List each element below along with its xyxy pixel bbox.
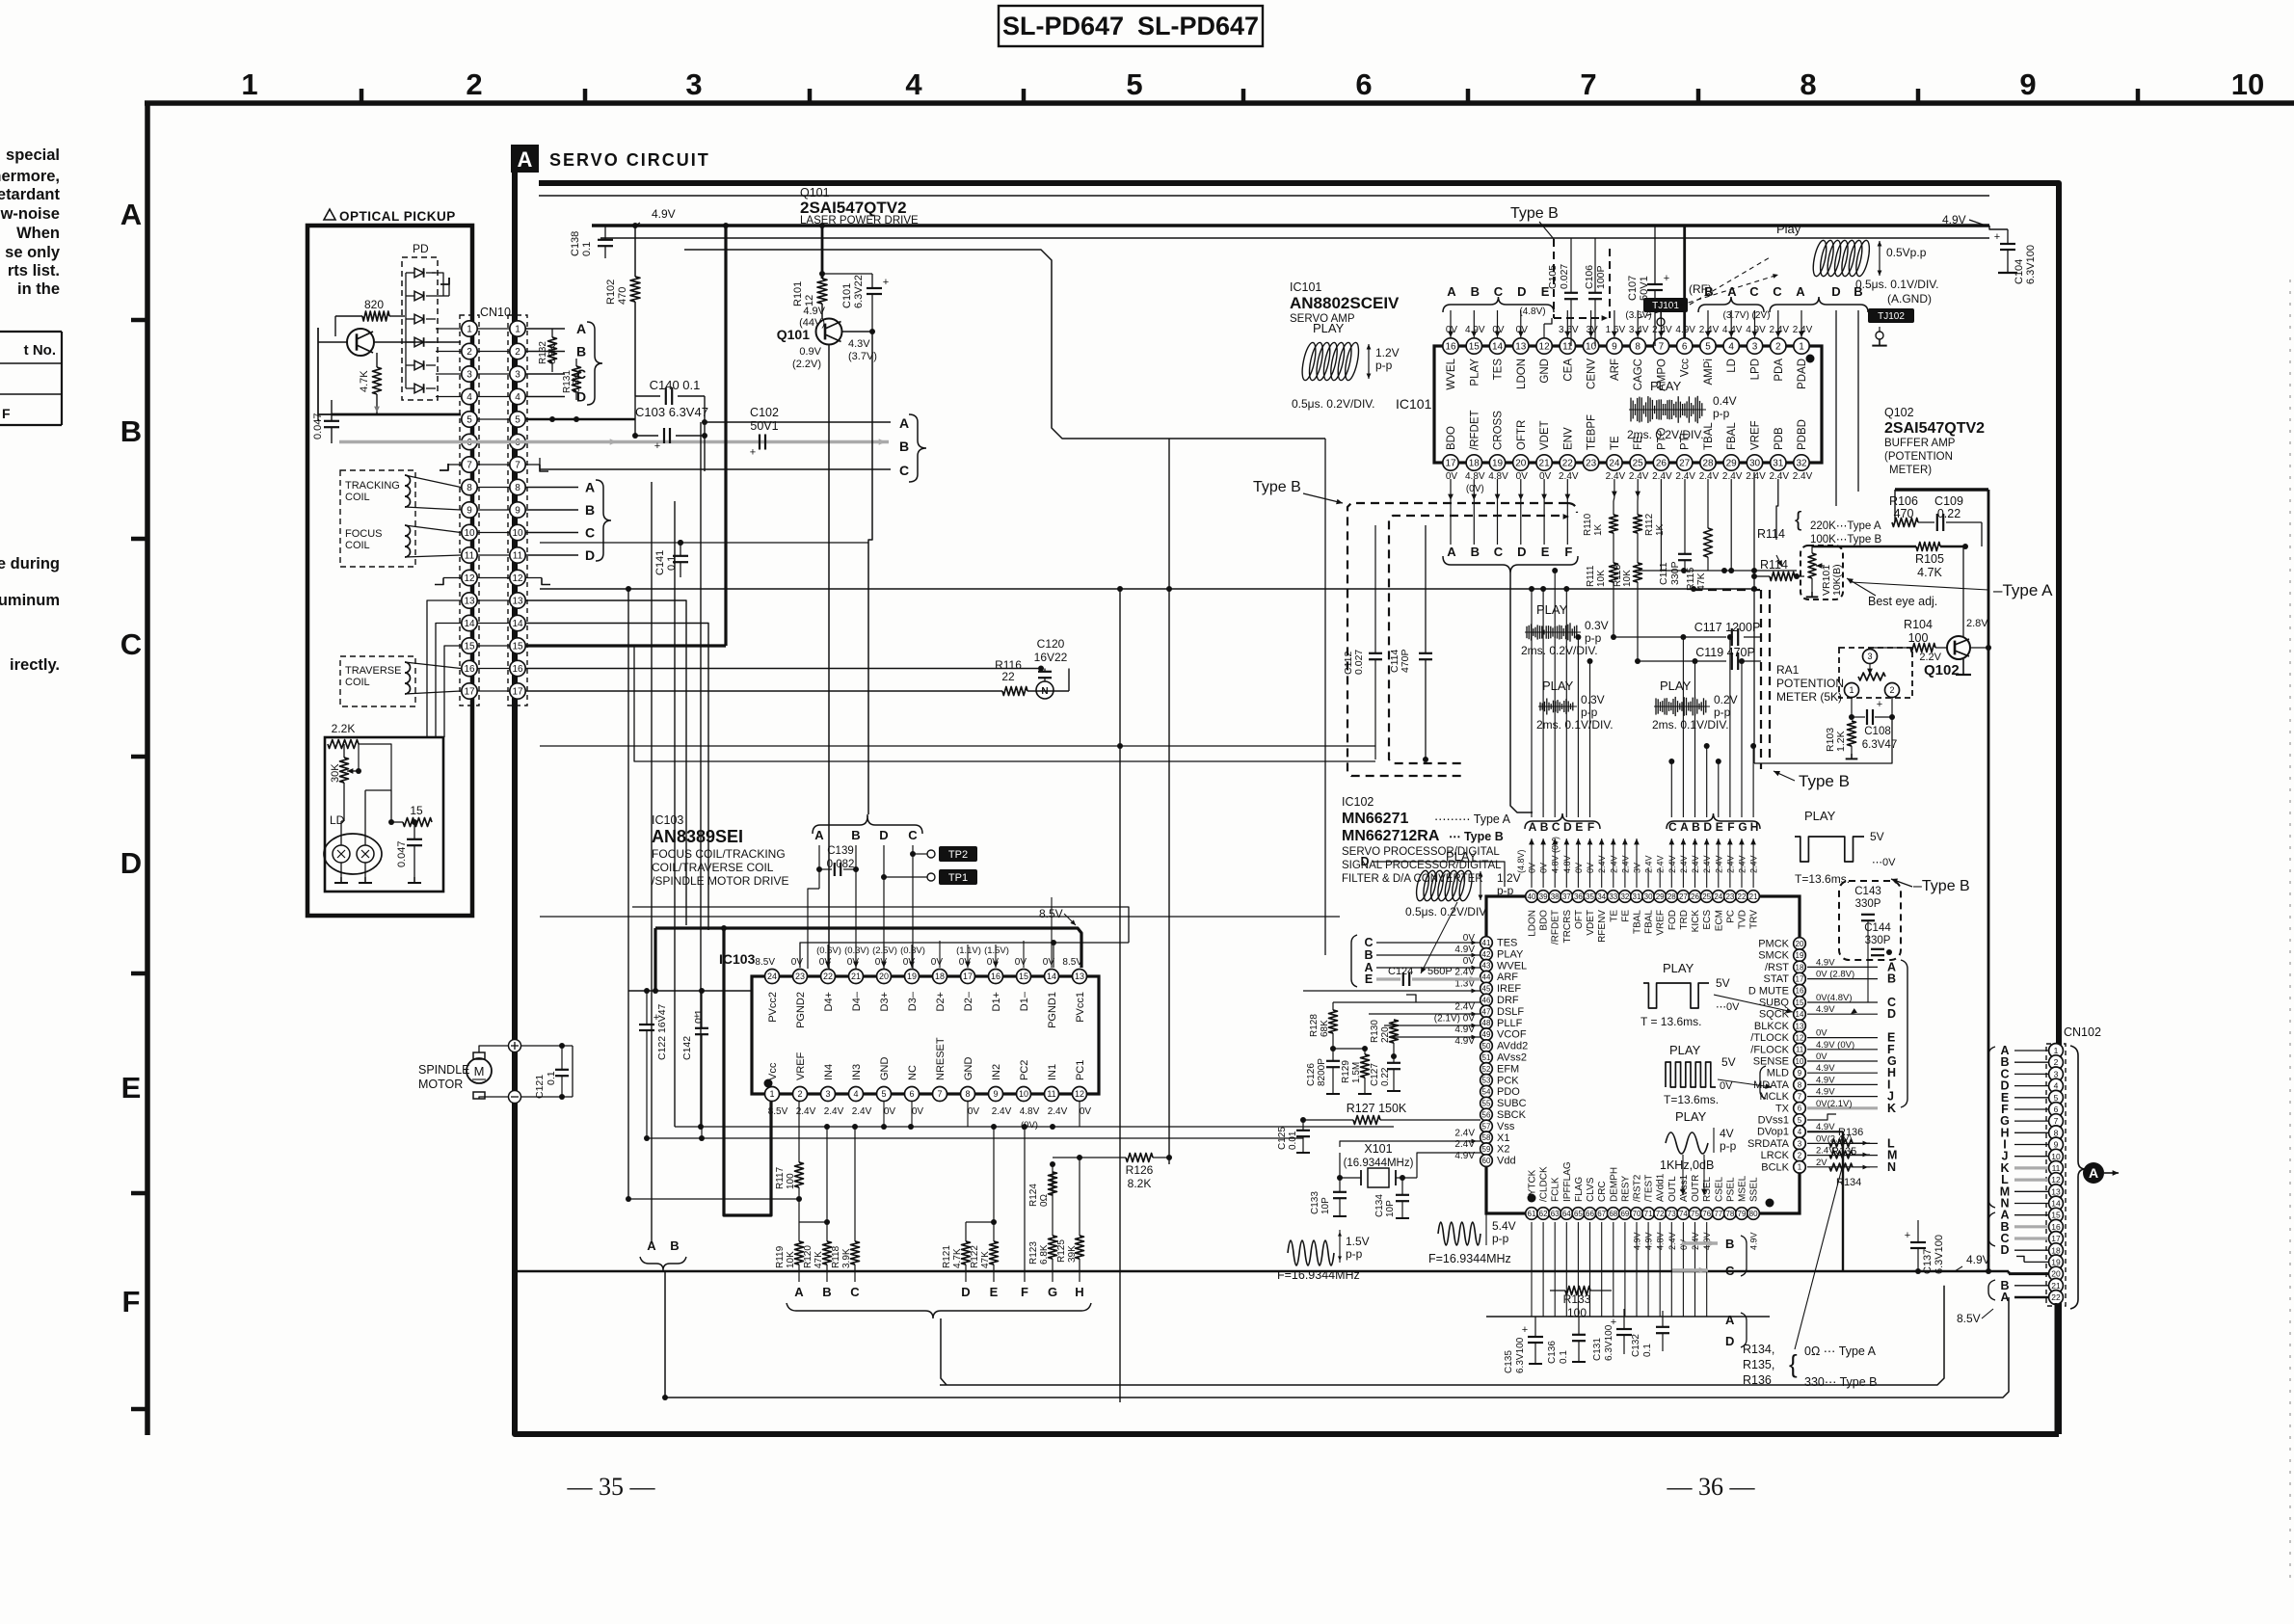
- svg-text:— 36 —: — 36 —: [1667, 1473, 1756, 1501]
- svg-text:D4–: D4–: [851, 991, 863, 1011]
- svg-text:8.5V: 8.5V: [1957, 1312, 1981, 1325]
- svg-text:p-p: p-p: [1714, 706, 1731, 719]
- svg-text:0V: 0V: [1539, 471, 1552, 482]
- svg-text:7: 7: [1580, 67, 1596, 101]
- resistor R115 47K: [1685, 479, 1713, 591]
- wire PD anodes: [405, 273, 407, 388]
- svg-text:2: 2: [466, 67, 482, 101]
- svg-text:PDA: PDA: [1774, 359, 1785, 382]
- dashed type B drop: [1554, 239, 1610, 321]
- svg-text:1.2K: 1.2K: [1835, 731, 1847, 752]
- CN101 pin 17 right: [510, 683, 525, 699]
- svg-text:R120: R120: [803, 1245, 814, 1268]
- CN102 row21 letter B: [2000, 1279, 2048, 1292]
- AGND testpoint TJ102: [1868, 292, 1932, 346]
- svg-text:E: E: [990, 1285, 999, 1299]
- wire bus x727: [700, 422, 702, 1127]
- svg-text:D: D: [1887, 1007, 1896, 1021]
- svg-text:D2–: D2–: [963, 991, 974, 1011]
- svg-text:1.5V: 1.5V: [1346, 1235, 1370, 1248]
- svg-text:2: 2: [1889, 685, 1894, 695]
- brace MLD MDATA MCLK: [1760, 1066, 1766, 1099]
- svg-text:rts list.: rts list.: [8, 262, 60, 280]
- svg-text:2ms. 0.1V/DIV.: 2ms. 0.1V/DIV.: [1536, 718, 1614, 732]
- rail 4.9V label: [635, 207, 676, 226]
- IC102 right wire SRDATA to L: [1807, 1133, 1895, 1150]
- svg-text:C105: C105: [1547, 265, 1559, 289]
- IC102 pin 76 RSEL: [1700, 1176, 1713, 1250]
- svg-text:C: C: [1494, 284, 1504, 299]
- svg-text:0V: 0V: [1446, 471, 1458, 482]
- svg-text:1K: 1K: [1655, 523, 1666, 536]
- wire C140 drop: [702, 396, 707, 471]
- svg-text:37: 37: [1562, 892, 1571, 901]
- IC101 pin 4 LD: [1722, 325, 1743, 373]
- 8.5V label CN102: [1957, 1309, 1993, 1325]
- svg-text:EFM: EFM: [1497, 1063, 1519, 1075]
- PLAY waveform MCLK: [1664, 1043, 1772, 1106]
- IC102 pin 71 /TEST: [1642, 1175, 1655, 1250]
- svg-text:78: 78: [1725, 1210, 1734, 1218]
- svg-text:VREF: VREF: [1750, 420, 1762, 450]
- svg-text:COIL: COIL: [345, 540, 370, 551]
- capacitor C137 6.3V100: [1905, 1220, 1945, 1274]
- IC102 pin 67 CRC: [1595, 1181, 1608, 1219]
- svg-text:C: C: [1773, 284, 1782, 299]
- wire out B: [1550, 1242, 1682, 1244]
- svg-text:9: 9: [467, 506, 472, 517]
- svg-text:25: 25: [1702, 892, 1711, 901]
- CN102 right brace: [2070, 1046, 2086, 1309]
- svg-text:BLKCK: BLKCK: [1754, 1021, 1790, 1032]
- resistor R136: [1807, 1127, 1870, 1147]
- svg-text:72: 72: [1656, 1210, 1665, 1218]
- PLAY waveform SQCK: [1640, 961, 1793, 1028]
- IC102 pin 73 OUTL: [1666, 1176, 1678, 1250]
- CN101 pin 5 right: [510, 412, 525, 427]
- svg-text:D: D: [2000, 1243, 2009, 1257]
- page number 35: [567, 1473, 656, 1501]
- svg-text:21: 21: [1749, 892, 1758, 901]
- svg-text:22: 22: [1738, 892, 1747, 901]
- IC101 letters ABCDE: [1443, 284, 1554, 312]
- CN101 row 8 link: [477, 487, 510, 489]
- svg-text:⋯⋯⋯ Type A: ⋯⋯⋯ Type A: [1434, 812, 1511, 826]
- svg-text:3: 3: [1867, 652, 1872, 661]
- svg-text:4.9V: 4.9V: [1942, 213, 1966, 226]
- gray signal line row6: [339, 439, 889, 445]
- svg-text:4.9V (0V): 4.9V (0V): [1816, 1040, 1854, 1051]
- CN101 pin 9 left: [462, 502, 477, 518]
- svg-text:E: E: [1716, 820, 1723, 834]
- CN101 pin 12 right: [510, 570, 525, 585]
- CN101 pin 7 left: [462, 457, 477, 472]
- capacitor C142 0.1: [681, 991, 708, 1141]
- IC102 box: [1486, 896, 1800, 1213]
- left margin text fragment 2: [0, 555, 60, 674]
- IC103 pin 20 D3+: [872, 945, 897, 1012]
- wire dashed typeB right: [1691, 586, 1770, 769]
- svg-text:8: 8: [965, 1089, 970, 1099]
- svg-text:18: 18: [1796, 963, 1804, 972]
- CN102 row 8 letter H: [2000, 1126, 2048, 1139]
- IC102 pin 13 BLKCK: [1754, 1020, 1805, 1032]
- svg-text:PCK: PCK: [1497, 1075, 1519, 1086]
- svg-text:71: 71: [1644, 1210, 1653, 1218]
- svg-text:R119: R119: [775, 1245, 786, 1268]
- svg-text:4: 4: [905, 67, 922, 101]
- transistor Q101: [777, 319, 842, 345]
- CN102 pin 10: [2049, 1149, 2064, 1163]
- svg-text:STAT: STAT: [1764, 973, 1790, 985]
- svg-text:PLAY: PLAY: [1313, 321, 1345, 335]
- svg-text:F: F: [122, 1285, 141, 1318]
- svg-text:20: 20: [1796, 940, 1804, 948]
- svg-text:5: 5: [467, 415, 472, 426]
- svg-text:{: {: [1795, 507, 1801, 531]
- svg-text:R135,: R135,: [1743, 1358, 1774, 1371]
- CN102 letters A-D brace: [1988, 1212, 1995, 1246]
- CN101 row 17 link: [477, 690, 510, 692]
- svg-text:/CLDCK: /CLDCK: [1539, 1166, 1550, 1202]
- svg-text:Vcc: Vcc: [767, 1062, 779, 1080]
- svg-text:C139: C139: [827, 845, 854, 857]
- svg-text:8200P: 8200P: [1317, 1058, 1327, 1086]
- svg-text:+: +: [654, 440, 660, 452]
- wire 8.5V thick: [655, 928, 1081, 991]
- CN101 pin 1 right: [510, 321, 525, 336]
- wire IC102 letter E up: [1575, 634, 1581, 817]
- IC103 pin 22 D4+: [816, 945, 841, 1012]
- svg-text:FOCUS COIL/TRACKING: FOCUS COIL/TRACKING: [652, 847, 786, 861]
- svg-text:B: B: [1471, 284, 1480, 299]
- resistor R111 10K: [1586, 501, 1618, 637]
- svg-text:/FLOCK: /FLOCK: [1750, 1044, 1789, 1055]
- svg-text:8: 8: [1798, 1080, 1802, 1089]
- svg-text:11: 11: [1047, 1089, 1055, 1099]
- wire ic101 wvel feed: [1325, 439, 1351, 943]
- svg-text:–Type A: –Type A: [1993, 581, 2053, 599]
- resistor R132 6.8K: [538, 329, 558, 372]
- Type B label right: [1891, 878, 1970, 894]
- svg-text:0.3V: 0.3V: [1581, 693, 1605, 706]
- IC102 right wire MLD to H: [1807, 1063, 1896, 1079]
- resistor R135: [1829, 1146, 1870, 1158]
- IC102 pin 27 TRD: [1677, 855, 1690, 929]
- svg-text:4.9V: 4.9V: [652, 207, 676, 221]
- svg-text:PMCK: PMCK: [1758, 939, 1789, 950]
- svg-text:3: 3: [515, 370, 520, 381]
- CN101 pin 16 left: [462, 660, 477, 676]
- svg-text:0Ω: 0Ω: [1039, 1193, 1050, 1207]
- wire IC102 letter C up: [1668, 759, 1674, 817]
- svg-text:2: 2: [797, 1089, 802, 1099]
- svg-text:14: 14: [1492, 342, 1504, 353]
- CN102 row 7 letter G: [2000, 1114, 2048, 1128]
- resistor R102 470: [605, 226, 640, 396]
- svg-text:4: 4: [1798, 1128, 1802, 1136]
- section label A SERVO CIRCUIT: [511, 145, 710, 173]
- svg-text:C142: C142: [681, 1036, 693, 1060]
- svg-text:IC103: IC103: [652, 813, 683, 827]
- svg-text:IC101: IC101: [1396, 396, 1432, 412]
- svg-text:D: D: [879, 828, 888, 842]
- svg-text:4V: 4V: [1720, 1127, 1734, 1140]
- laser diode assembly: [324, 834, 382, 874]
- svg-text:C101: C101: [841, 283, 853, 308]
- wire x1162 top: [1119, 540, 1121, 589]
- IC102 pin 63 FCLK: [1549, 1177, 1561, 1219]
- wires CN101 rows 1-4 to letters: [525, 329, 565, 397]
- svg-text:etardant: etardant: [0, 186, 60, 203]
- capacitor C121 0.1: [534, 1043, 569, 1100]
- svg-text:D: D: [961, 1285, 970, 1299]
- svg-text:15: 15: [512, 642, 523, 652]
- svg-text:R110: R110: [1583, 513, 1593, 536]
- svg-text:LASER POWER DRIVE: LASER POWER DRIVE: [800, 215, 919, 226]
- wire 2.2K right: [359, 744, 391, 790]
- svg-text:51: 51: [1482, 1053, 1491, 1062]
- svg-text:OUTL: OUTL: [1667, 1176, 1678, 1202]
- svg-text:CROSS: CROSS: [1493, 411, 1505, 450]
- svg-text:26: 26: [1656, 459, 1667, 469]
- svg-text:40: 40: [1528, 892, 1536, 901]
- IC101 pin 24 TE: [1606, 436, 1626, 482]
- svg-text:COIL/TRAVERSE COIL: COIL/TRAVERSE COIL: [652, 861, 774, 874]
- svg-text:R121: R121: [942, 1245, 952, 1268]
- IC102 pin 35 VDET: [1584, 863, 1596, 936]
- capacitor C136 0.1: [1547, 1317, 1586, 1364]
- svg-text:SRDATA: SRDATA: [1747, 1138, 1790, 1150]
- svg-text:LD: LD: [330, 813, 345, 827]
- svg-text:19: 19: [1492, 459, 1504, 469]
- svg-text:(POTENTION: (POTENTION: [1884, 451, 1953, 463]
- svg-text:2: 2: [1798, 1152, 1802, 1160]
- wire AB funnel: [664, 1270, 666, 1392]
- svg-text:9: 9: [1798, 1069, 1802, 1078]
- svg-text:p-p: p-p: [1581, 706, 1598, 719]
- IC103 pin 23 PGND2: [791, 957, 808, 1028]
- pointer to waveform: [1639, 256, 1778, 318]
- svg-text:31: 31: [1773, 459, 1784, 469]
- svg-text:IC102: IC102: [1342, 795, 1374, 809]
- IC101 (4.8V) note: [1519, 306, 1770, 321]
- IC101 pin 10 CENV: [1583, 325, 1598, 389]
- wire IC102 letter C up: [1552, 568, 1558, 817]
- svg-text:A: A: [814, 828, 824, 842]
- top ruler line: [145, 100, 2294, 106]
- IC102 pin 59 X2: [1454, 1139, 1509, 1156]
- svg-text:VREF: VREF: [795, 1052, 807, 1080]
- CN102 pin 1: [2049, 1044, 2064, 1058]
- svg-text:0.3V: 0.3V: [1585, 619, 1609, 632]
- IC101 pin 12 GND: [1536, 338, 1552, 384]
- focus coil: [345, 525, 461, 557]
- svg-text:0V: 0V: [1463, 956, 1476, 967]
- IC103 pin 9 IN2: [989, 1064, 1012, 1117]
- svg-text:69: 69: [1620, 1210, 1629, 1218]
- svg-text:2.4V: 2.4V: [1675, 471, 1695, 482]
- svg-text:TES: TES: [1493, 359, 1505, 381]
- IC102 pin 3 SRDATA: [1747, 1137, 1805, 1150]
- svg-text:/RFDET: /RFDET: [1551, 910, 1561, 945]
- svg-text:8.5V: 8.5V: [1039, 907, 1063, 920]
- svg-text:R127 150K: R127 150K: [1347, 1102, 1407, 1115]
- svg-text:12: 12: [464, 573, 475, 584]
- IC102 pin 34 RFENV: [1595, 855, 1608, 942]
- wires CN101 left rows1-4: [436, 329, 461, 397]
- wire RA1 tap: [1869, 648, 1871, 650]
- svg-text:9: 9: [1612, 342, 1617, 353]
- svg-text:FOCUS: FOCUS: [345, 528, 383, 540]
- resistor R119 10K: [775, 1199, 804, 1282]
- svg-text:MSEL: MSEL: [1738, 1175, 1748, 1202]
- VR101 pot: [1801, 546, 1843, 599]
- IC103 box: [752, 976, 1099, 1094]
- IC103 pin 11 IN1: [1045, 1064, 1068, 1117]
- svg-text:35: 35: [1586, 892, 1594, 901]
- PLAY waveform audio: [1660, 1109, 1737, 1195]
- letter D ic102 left: [1360, 855, 1505, 887]
- svg-text:PDBD: PDBD: [1797, 419, 1808, 450]
- svg-text:FOD: FOD: [1667, 910, 1678, 930]
- Q101 title: [800, 186, 919, 226]
- svg-text:C111: C111: [1658, 562, 1669, 585]
- wire DRF gnd: [1406, 995, 1416, 1002]
- svg-text:MN66271: MN66271: [1342, 811, 1408, 827]
- IC102 pin 4 DVop1: [1757, 1126, 1805, 1138]
- CN101 pin 1 left: [462, 321, 477, 336]
- 8.5V label IC103: [1039, 907, 1076, 925]
- svg-text:C131: C131: [1592, 1338, 1603, 1361]
- wire RA1 out: [1754, 717, 1892, 763]
- svg-text:PSEL: PSEL: [1725, 1177, 1736, 1202]
- svg-text:SSEL: SSEL: [1749, 1177, 1760, 1202]
- IC102 pin 24 ECM: [1713, 855, 1725, 931]
- svg-text:32: 32: [1796, 459, 1807, 469]
- resistor R127 150K: [1300, 1102, 1480, 1125]
- svg-text:0V: 0V: [1816, 1028, 1827, 1039]
- capacitor C111 330P: [1658, 479, 1692, 585]
- IC102 pin 64 IPFFLAG: [1560, 1161, 1573, 1219]
- svg-text:2.4V: 2.4V: [1699, 471, 1720, 482]
- svg-text:2.8V: 2.8V: [1966, 618, 1988, 629]
- svg-text:/TEST: /TEST: [1644, 1175, 1655, 1202]
- svg-text:4.9V: 4.9V: [1816, 1087, 1835, 1098]
- wire AF funnel: [1510, 573, 1533, 812]
- wire x1375: [1324, 439, 1326, 955]
- svg-text:60: 60: [1482, 1157, 1491, 1165]
- CN102 row 16 letter B: [2000, 1220, 2048, 1234]
- svg-text:A: A: [1447, 284, 1456, 299]
- wire row13 left: [427, 600, 461, 737]
- svg-text:DVss1: DVss1: [1758, 1115, 1789, 1127]
- wire IC102 out bus2: [1550, 1317, 1566, 1330]
- CN101 row 14 link: [477, 623, 510, 625]
- svg-text:57: 57: [1482, 1122, 1491, 1131]
- IC102 right wire MCLK to J: [1807, 1087, 1894, 1104]
- ruler numbers: [241, 67, 2264, 101]
- svg-text:4.9V: 4.9V: [1816, 1004, 1835, 1015]
- resistor R129 1.5M: [1333, 1046, 1372, 1094]
- svg-text:WVEL: WVEL: [1497, 960, 1527, 972]
- wire row16: [525, 666, 1044, 672]
- svg-text:48: 48: [1482, 1019, 1491, 1027]
- svg-text:17: 17: [963, 972, 973, 981]
- svg-text:AN8389SEI: AN8389SEI: [652, 827, 743, 846]
- wire h661 ext: [1614, 636, 1761, 638]
- capacitor C132 0.1: [1631, 1311, 1669, 1357]
- wire gnd bus 1169: [675, 1124, 1394, 1130]
- svg-text:PD: PD: [413, 242, 429, 255]
- capacitor C114 470P: [1389, 525, 1432, 759]
- R114 pointer: [1760, 555, 1788, 572]
- svg-text:C: C: [899, 463, 909, 478]
- left margin text fragment: [0, 146, 61, 298]
- ground IC101 pin12: [1544, 318, 1552, 338]
- svg-text:3: 3: [467, 370, 472, 381]
- wire Q102 to bus: [1970, 645, 1991, 651]
- CN101 pin 11 right: [510, 547, 525, 563]
- IC102 pin 16 D MUTE: [1748, 985, 1805, 998]
- CN102 row 5 letter E: [2001, 1091, 2048, 1105]
- svg-text:+: +: [1905, 1230, 1910, 1241]
- svg-text:B: B: [670, 1238, 679, 1253]
- svg-text:2: 2: [515, 347, 520, 358]
- CN102 letters A-N brace: [1988, 1047, 1995, 1208]
- svg-text:17: 17: [1445, 459, 1456, 469]
- svg-text:68: 68: [1609, 1210, 1617, 1218]
- IC102 pin 48 PLLF: [1434, 1013, 1523, 1029]
- IC102 pin 65 FLAG: [1572, 1177, 1585, 1220]
- IC102 right stub DVop1: [1807, 1122, 1836, 1132]
- svg-text:Q101: Q101: [777, 327, 810, 342]
- CN101 pin 12 left: [462, 570, 477, 585]
- IC101 pin 9 ARF: [1606, 325, 1626, 381]
- CN102 row 9 letter I: [2003, 1138, 2048, 1152]
- svg-text:4: 4: [1728, 342, 1734, 353]
- svg-text:330P: 330P: [1865, 935, 1891, 946]
- IC102 pin 44 ARF: [1454, 968, 1518, 984]
- IC102 letters ABCDEF top: [1525, 813, 1600, 834]
- svg-text:C138: C138: [570, 231, 581, 256]
- svg-text:4.8V: 4.8V: [1020, 1106, 1040, 1117]
- IC102 pin 7 MCLK: [1759, 1090, 1805, 1103]
- svg-text:70: 70: [1633, 1210, 1641, 1218]
- svg-text:3: 3: [1798, 1139, 1802, 1148]
- svg-text:Q102: Q102: [1924, 662, 1960, 679]
- svg-text:24: 24: [1609, 459, 1620, 469]
- svg-text:TP1: TP1: [948, 872, 968, 884]
- IC101 pin 21 VDET: [1536, 420, 1552, 482]
- svg-text:p-p: p-p: [1713, 407, 1730, 420]
- svg-text:0.027: 0.027: [1353, 650, 1365, 675]
- svg-text:3: 3: [685, 67, 702, 101]
- CN102 pin 22: [2049, 1291, 2064, 1305]
- svg-text:11: 11: [465, 551, 475, 562]
- letters ABC ladder: [794, 1285, 860, 1299]
- IC102 pin 51 AVss2: [1480, 1052, 1527, 1064]
- svg-text:A: A: [518, 147, 533, 172]
- CN102 pin 18: [2049, 1243, 2064, 1258]
- svg-text:B: B: [1471, 545, 1480, 559]
- svg-text:15: 15: [410, 804, 423, 817]
- svg-text:D: D: [120, 846, 142, 880]
- crystal X101: [1340, 1142, 1417, 1187]
- photodiode D4: [406, 337, 436, 347]
- transistor Q102: [1919, 618, 1988, 679]
- CN102 pin 5: [2049, 1090, 2064, 1105]
